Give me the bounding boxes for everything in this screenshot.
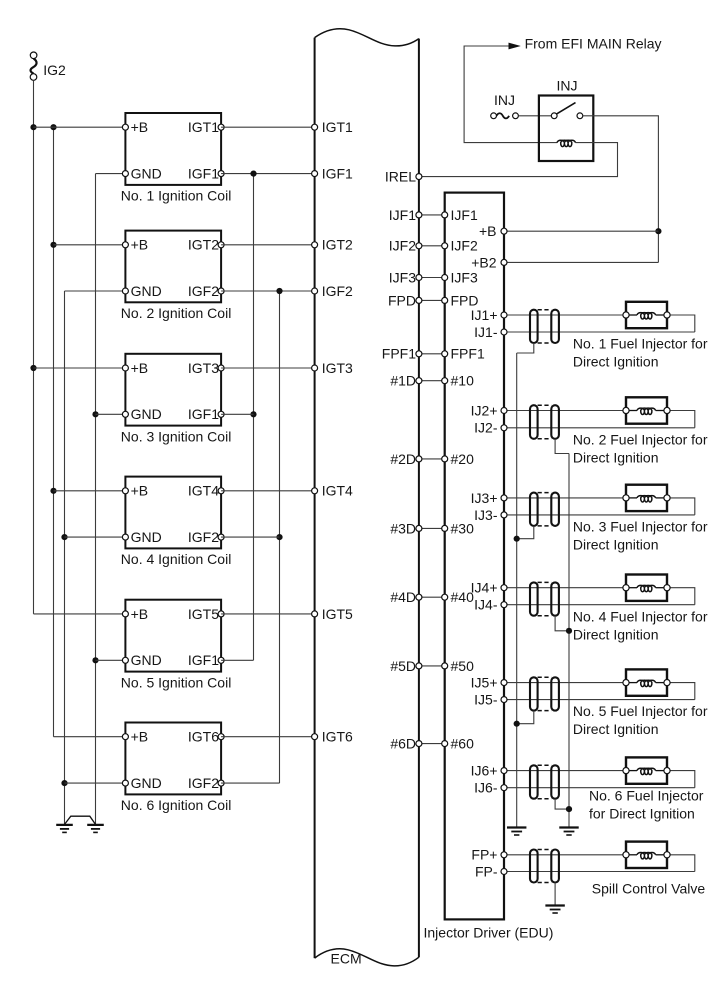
svg-text:IJ5+: IJ5+ <box>471 675 498 691</box>
svg-text:#10: #10 <box>451 373 475 389</box>
svg-text:+B: +B <box>479 223 497 239</box>
fuel injector 3 pins <box>623 495 670 501</box>
ground spill valve <box>545 906 564 914</box>
junction +B1 on bus A <box>30 124 36 130</box>
EDU pin IJ6+ <box>471 763 507 779</box>
wire ECM #6D to EDU <box>419 743 445 745</box>
wire IGF1 bus <box>253 174 255 661</box>
svg-text:IJ4-: IJ4- <box>474 597 498 613</box>
ECM pin #3D <box>390 520 422 536</box>
ECM pin IJF3 <box>389 269 422 285</box>
junction +B node <box>655 228 661 234</box>
svg-text:IJ2+: IJ2+ <box>471 402 498 418</box>
svg-text:IJ6+: IJ6+ <box>471 763 498 779</box>
connector J1 dashes <box>538 310 552 343</box>
spill control valve pins <box>623 852 670 858</box>
ignition coil 1 pins <box>122 124 224 176</box>
fuel injector 4 pins <box>623 585 670 591</box>
svg-text:#20: #20 <box>451 451 475 467</box>
junction bus B at J6 <box>566 806 572 812</box>
svg-text:From EFI MAIN Relay: From EFI MAIN Relay <box>525 35 662 51</box>
wire ECM #3D to EDU <box>419 527 445 529</box>
wire IJ4- <box>504 604 695 606</box>
wire IJ5- <box>504 699 695 701</box>
wire injector 6 return <box>667 771 695 788</box>
caption No. 2 fuel injector <box>573 431 708 465</box>
junction bus B at +B1 <box>50 124 56 130</box>
svg-text:#4D: #4D <box>390 589 416 605</box>
wire IGT3 <box>221 367 315 369</box>
svg-text:#1D: #1D <box>390 373 416 389</box>
EDU pin #40 <box>442 589 474 605</box>
EDU pin +B2 <box>471 254 507 270</box>
svg-text:#3D: #3D <box>390 520 416 536</box>
ECM pin IJF1 <box>389 207 422 223</box>
svg-text:Injector Driver (EDU): Injector Driver (EDU) <box>424 925 554 941</box>
wire ECM FPD to EDU <box>419 299 445 301</box>
EDU pin IJ5+ <box>471 675 507 691</box>
wire shield J4 to bus B <box>555 616 569 631</box>
svg-text:#2D: #2D <box>390 451 416 467</box>
ignition coil 5 pins <box>122 611 224 663</box>
wire IGF2 coil4 stub <box>221 536 279 538</box>
fuel injector 6 pins <box>623 768 670 774</box>
svg-text:GND: GND <box>131 283 162 299</box>
svg-text:IGF1: IGF1 <box>322 166 353 182</box>
wire ECM FPF1 to EDU <box>419 353 445 355</box>
wire IJ6- <box>504 787 695 789</box>
EDU pin #50 <box>442 658 474 674</box>
svg-text:IGF2: IGF2 <box>322 283 353 299</box>
wire shield J2 to bus B <box>555 439 569 454</box>
caption No. 5 Ignition Coil <box>121 674 232 690</box>
caption No. 1 Ignition Coil <box>121 188 232 204</box>
connector FP oval right <box>551 850 559 883</box>
caption No. 4 Ignition Coil <box>121 551 232 567</box>
wire +B bus B <box>53 127 55 737</box>
label INJ connector <box>494 92 515 108</box>
connector J4 oval right <box>551 582 559 615</box>
svg-text:No. 6 Fuel Injector: No. 6 Fuel Injector <box>589 788 704 804</box>
svg-text:IJ5-: IJ5- <box>474 692 498 708</box>
connector J6 oval right <box>551 765 559 798</box>
svg-text:#6D: #6D <box>390 736 416 752</box>
wire IGF1 coil1 to ECM <box>221 173 315 175</box>
svg-text:No. 2 Ignition Coil: No. 2 Ignition Coil <box>121 305 232 321</box>
ground bus B right of EDU <box>568 454 570 828</box>
wire IJ6+ <box>504 770 626 772</box>
svg-text:No. 1 Ignition Coil: No. 1 Ignition Coil <box>121 188 232 204</box>
ECM pin #6D <box>390 736 422 752</box>
fuel injector 4 coil <box>626 585 667 591</box>
svg-text:No. 4 Fuel Injector for: No. 4 Fuel Injector for <box>573 608 708 624</box>
ignition coil 2 pins <box>122 242 224 294</box>
ignition coil 6 pins <box>122 734 224 786</box>
connector J6 oval left <box>530 765 538 798</box>
svg-text:IGF1: IGF1 <box>188 166 219 182</box>
wire +B6 <box>54 736 126 738</box>
EDU pin #10 <box>442 373 474 389</box>
connector J4 oval left <box>530 582 538 615</box>
fuel injector 3 coil <box>626 496 667 502</box>
junction IGF2 bus coil4 <box>276 534 282 540</box>
EDU pin IJ3- <box>474 507 507 523</box>
wire ECM #4D to EDU <box>419 596 445 598</box>
junction IGF1 bus top <box>250 171 256 177</box>
connector IG2 <box>30 52 66 80</box>
injector driver EDU box <box>445 193 504 920</box>
wire IGF1 coil3 stub <box>221 413 253 415</box>
ground bus B symbol <box>559 828 578 836</box>
svg-text:+B2: +B2 <box>471 254 497 270</box>
ignition coil 2 box <box>125 231 221 303</box>
svg-text:IG2: IG2 <box>43 62 66 78</box>
svg-text:IGF2: IGF2 <box>188 283 219 299</box>
junction bus B at +B4 <box>50 488 56 494</box>
wire ECM IJF3 to EDU <box>419 277 445 279</box>
svg-text:IJ4+: IJ4+ <box>471 580 498 596</box>
svg-text:IJ1-: IJ1- <box>474 324 498 340</box>
junction bus B at +B2 <box>50 242 56 248</box>
caption Injector Driver (EDU) <box>424 925 554 941</box>
wire spill valve return <box>667 855 695 872</box>
fuel injector 5 pins <box>623 680 670 686</box>
spill control valve box <box>626 842 667 868</box>
junction bus B at J4 <box>566 628 572 634</box>
ECM band top tear <box>315 29 419 46</box>
svg-text:#5D: #5D <box>390 658 416 674</box>
wire GND6 <box>65 782 126 784</box>
ignition coil 1 labels <box>131 119 220 181</box>
svg-text:IGF2: IGF2 <box>188 775 219 791</box>
svg-text:IJ1+: IJ1+ <box>471 307 498 323</box>
svg-text:GND: GND <box>131 166 162 182</box>
ignition coil 6 box <box>125 723 221 795</box>
wire IJ2+ <box>504 410 626 412</box>
ECM band bottom tear <box>315 949 419 966</box>
svg-text:#50: #50 <box>451 658 475 674</box>
svg-text:+B: +B <box>131 237 149 253</box>
spill control valve coil <box>626 852 667 858</box>
svg-text:#60: #60 <box>451 736 475 752</box>
wire ECM #2D to EDU <box>419 458 445 460</box>
junction bus A at J3 <box>514 536 520 542</box>
wire GND4 <box>65 536 126 538</box>
fuel injector 2 box <box>626 397 667 423</box>
junction +B3 on bus A <box>30 365 36 371</box>
EDU pin IJ3+ <box>471 490 507 506</box>
svg-text:IGT3: IGT3 <box>322 360 353 376</box>
svg-text:FPF1: FPF1 <box>451 346 485 362</box>
relay INJ switch <box>551 103 583 119</box>
svg-text:IJF3: IJF3 <box>389 269 416 285</box>
EDU pin IJ2+ <box>471 402 507 418</box>
ground left 2 <box>87 825 104 833</box>
wire IJ1- <box>504 331 695 333</box>
caption No. 6 fuel injector <box>589 788 704 822</box>
caption No. 6 Ignition Coil <box>121 797 232 813</box>
EDU pin +B <box>479 223 507 239</box>
EDU pin #30 <box>442 520 474 536</box>
wire IJ5+ <box>504 682 626 684</box>
EDU pin FPF1 <box>442 346 485 362</box>
wire IGF2 bus <box>279 291 281 783</box>
wire +B4 <box>54 490 126 492</box>
svg-text:FP+: FP+ <box>471 847 497 863</box>
wire shield J1 to bus A <box>517 343 534 353</box>
svg-text:INJ: INJ <box>494 92 515 108</box>
svg-text:No. 5 Fuel Injector for: No. 5 Fuel Injector for <box>573 703 708 719</box>
wire IGF2 coil6 stub <box>221 782 279 784</box>
svg-text:IJF3: IJF3 <box>451 269 478 285</box>
ECM band left edge <box>314 38 316 959</box>
svg-text:GND: GND <box>131 652 162 668</box>
ignition coil 3 pins <box>122 365 224 417</box>
svg-text:IJ3+: IJ3+ <box>471 490 498 506</box>
svg-text:No. 2 Fuel Injector for: No. 2 Fuel Injector for <box>573 431 708 447</box>
wire INJ connector to relay <box>518 115 554 117</box>
wire GND2 <box>65 290 126 292</box>
caption No. 5 fuel injector <box>573 703 708 737</box>
wire ECM IJF1 to EDU <box>419 214 445 216</box>
wire IG2 +B bus A <box>33 80 35 614</box>
connector J5 dashes <box>538 677 552 710</box>
ECM pin #4D <box>390 589 422 605</box>
EDU pin FP+ <box>471 847 507 863</box>
EDU pin IJ6- <box>474 780 507 796</box>
ECM pin #5D <box>390 658 422 674</box>
svg-text:GND: GND <box>131 529 162 545</box>
EDU pin IJ1+ <box>471 307 507 323</box>
svg-text:GND: GND <box>131 775 162 791</box>
connector J1 oval right <box>551 310 559 343</box>
wire relay coil to IREL <box>419 143 618 177</box>
fuel injector 5 coil <box>626 680 667 686</box>
ignition coil 3 labels <box>131 360 220 422</box>
wire injector 3 return <box>667 498 695 515</box>
wire ECM IJF2 to EDU <box>419 245 445 247</box>
wire GND5 <box>96 659 126 661</box>
wire injector 4 return <box>667 588 695 605</box>
EDU pin IJ4- <box>474 597 507 613</box>
junction bus D at GND3 <box>92 411 98 417</box>
svg-text:IGF2: IGF2 <box>188 529 219 545</box>
svg-text:Direct Ignition: Direct Ignition <box>573 626 659 642</box>
wire injector 5 return <box>667 683 695 700</box>
caption No. 4 fuel injector <box>573 608 708 642</box>
wire GND3 <box>96 413 126 415</box>
EDU pin IJ5- <box>474 692 507 708</box>
ECM pin IGF2 <box>312 283 353 299</box>
svg-text:IJ2-: IJ2- <box>474 420 498 436</box>
wire relay switch to +B node <box>583 116 659 263</box>
ignition coil 1 box <box>125 113 221 185</box>
svg-text:INJ: INJ <box>557 78 578 94</box>
svg-text:IGT6: IGT6 <box>322 729 353 745</box>
wire +B2 <box>54 244 126 246</box>
EDU pin IJ4+ <box>471 580 507 596</box>
wire shield J3 to bus A <box>517 526 534 539</box>
EDU pin IJF3 <box>442 269 478 285</box>
ignition coil 2 labels <box>131 237 220 299</box>
svg-text:IGT3: IGT3 <box>188 360 219 376</box>
connector J4 dashes <box>538 582 552 615</box>
ECM pin IGT1 <box>312 119 353 135</box>
fuel injector 5 box <box>626 669 667 695</box>
fuel injector 6 coil <box>626 768 667 774</box>
ECM pin #2D <box>390 451 422 467</box>
fuel injector 4 box <box>626 575 667 601</box>
connector J3 oval left <box>530 493 538 526</box>
svg-text:IJ3-: IJ3- <box>474 507 498 523</box>
wire ECM #5D to EDU <box>419 665 445 667</box>
svg-text:IJF2: IJF2 <box>451 238 478 254</box>
junction bus C at GND6 <box>61 780 67 786</box>
svg-text:for Direct Ignition: for Direct Ignition <box>589 806 695 822</box>
wire IGF1 coil5 stub <box>221 659 253 661</box>
wire IJ3- <box>504 514 695 516</box>
wire IGF2 coil2 to ECM <box>221 290 315 292</box>
wire +B <box>504 230 658 232</box>
EDU pin IJF1 <box>442 207 478 223</box>
svg-text:IREL: IREL <box>385 169 416 185</box>
svg-text:IGT5: IGT5 <box>322 606 353 622</box>
fuel injector 6 box <box>626 757 667 783</box>
svg-text:FPD: FPD <box>388 292 416 308</box>
svg-text:Direct Ignition: Direct Ignition <box>573 537 659 553</box>
ECM pin IJF2 <box>389 238 422 254</box>
ground bus A right of EDU <box>516 353 518 827</box>
wire IJ3+ <box>504 497 626 499</box>
ground bond bar <box>65 816 96 824</box>
ECM pin FPD <box>388 292 422 308</box>
svg-text:IGF1: IGF1 <box>188 406 219 422</box>
svg-text:+B: +B <box>131 360 149 376</box>
wire FP- <box>504 871 695 873</box>
svg-text:+B: +B <box>131 606 149 622</box>
svg-text:No. 6 Ignition Coil: No. 6 Ignition Coil <box>121 797 232 813</box>
ECM pin IREL <box>385 169 422 185</box>
svg-text:IGT2: IGT2 <box>188 237 219 253</box>
caption No. 1 fuel injector <box>573 336 708 370</box>
svg-text:IGF1: IGF1 <box>188 652 219 668</box>
svg-text:IGT1: IGT1 <box>322 119 353 135</box>
connector J2 oval right <box>551 405 559 439</box>
wire IJ1+ <box>504 314 626 316</box>
ignition coil 4 labels <box>131 483 220 545</box>
svg-text:No. 1 Fuel Injector for: No. 1 Fuel Injector for <box>573 336 708 352</box>
svg-text:Spill Control Valve: Spill Control Valve <box>592 881 706 897</box>
ignition coil 3 box <box>125 354 221 426</box>
caption No. 3 Ignition Coil <box>121 428 232 444</box>
connector J2 oval left <box>530 405 538 439</box>
svg-text:+B: +B <box>131 729 149 745</box>
junction IGF1 bus coil3 <box>250 411 256 417</box>
svg-text:No. 3 Ignition Coil: No. 3 Ignition Coil <box>121 428 232 444</box>
wire +B2 <box>504 261 658 263</box>
wire IJ4+ <box>504 587 626 589</box>
ECM band right edge <box>418 39 420 958</box>
wire EFI MAIN relay feed <box>464 46 557 143</box>
wire shield J5 to bus A <box>517 711 534 724</box>
ground left 1 <box>56 825 73 833</box>
wire +B1 <box>34 126 126 128</box>
svg-text:No. 3 Fuel Injector for: No. 3 Fuel Injector for <box>573 519 708 535</box>
wire GND bus D <box>95 174 97 825</box>
svg-text:+B: +B <box>131 483 149 499</box>
label INJ relay <box>557 78 578 94</box>
caption No. 3 fuel injector <box>573 519 708 553</box>
EDU pin IJ1- <box>474 324 507 340</box>
wire GND1 <box>96 173 126 175</box>
wire GND bus C <box>64 291 66 825</box>
fuel injector 1 box <box>626 302 667 328</box>
wire +B3 <box>34 367 126 369</box>
wire injector 1 return <box>667 315 695 332</box>
connector J3 dashes <box>538 493 552 526</box>
svg-text:IGT1: IGT1 <box>188 119 219 135</box>
wire ECM #1D to EDU <box>419 380 445 382</box>
svg-text:No. 4 Ignition Coil: No. 4 Ignition Coil <box>121 551 232 567</box>
EDU pin #20 <box>442 451 474 467</box>
ECM pin IGT6 <box>312 729 353 745</box>
svg-text:IJF1: IJF1 <box>389 207 416 223</box>
wire IGT2 <box>221 244 315 246</box>
wire +B5 <box>34 613 126 615</box>
arrowhead to From EFI MAIN Relay <box>509 43 521 50</box>
caption No. 2 Ignition Coil <box>121 305 232 321</box>
fuel injector 2 pins <box>623 407 670 413</box>
fuel injector 2 coil <box>626 408 667 414</box>
svg-text:Direct Ignition: Direct Ignition <box>573 449 659 465</box>
svg-text:IGT2: IGT2 <box>322 237 353 253</box>
ignition coil 5 labels <box>131 606 220 668</box>
junction bus D at GND5 <box>92 657 98 663</box>
svg-text:FP-: FP- <box>475 863 498 879</box>
svg-text:IJF2: IJF2 <box>389 238 416 254</box>
wire shield J6 to bus B <box>555 799 569 809</box>
ECM pin IGT4 <box>312 483 353 499</box>
EDU pin FPD <box>442 292 479 308</box>
connector INJ <box>491 113 519 119</box>
EDU pin IJF2 <box>442 238 478 254</box>
ignition coil 5 box <box>125 600 221 672</box>
ECM pin IGT3 <box>312 360 353 376</box>
svg-text:FPD: FPD <box>451 292 479 308</box>
label From EFI MAIN Relay <box>525 35 662 51</box>
connector J2 dashes <box>538 405 552 439</box>
ignition coil 4 box <box>125 477 221 549</box>
wire IGT5 <box>221 613 315 615</box>
connector FP oval left <box>530 850 538 883</box>
EDU pin #60 <box>442 736 474 752</box>
ECM pin #1D <box>390 373 422 389</box>
connector J3 oval right <box>551 493 559 526</box>
svg-text:IJF1: IJF1 <box>451 207 478 223</box>
svg-text:+B: +B <box>131 119 149 135</box>
svg-text:IGT4: IGT4 <box>322 483 353 499</box>
relay INJ coil <box>557 140 576 146</box>
ECM pin FPF1 <box>382 346 422 362</box>
ignition coil 4 pins <box>122 488 224 540</box>
connector J5 oval left <box>530 677 538 710</box>
fuel injector 3 box <box>626 485 667 511</box>
fuel injector 1 pins <box>623 312 670 318</box>
fuel injector 1 coil <box>626 313 667 319</box>
connector FP dashes <box>538 850 552 883</box>
label ECM <box>331 951 362 967</box>
wire IGT4 <box>221 490 315 492</box>
